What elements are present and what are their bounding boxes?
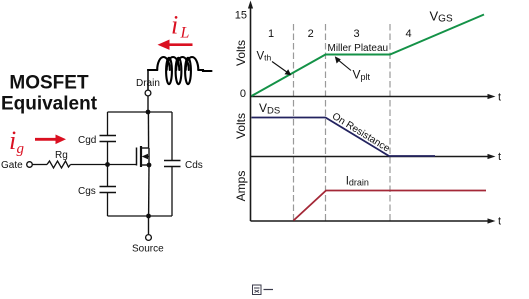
wire Gate to Rg <box>33 164 48 166</box>
svg-text:0: 0 <box>240 88 246 100</box>
svg-text:MOSFET: MOSFET <box>9 73 89 94</box>
svg-text:VGS: VGS <box>430 9 453 25</box>
svg-text:2: 2 <box>308 28 314 40</box>
waveform Idrain (dark red) <box>294 191 487 221</box>
wire bottom rail to Source terminal <box>148 216 150 234</box>
svg-text:Vth: Vth <box>257 51 272 63</box>
wire Cgs to bottom rail <box>107 193 109 217</box>
svg-text:L: L <box>180 25 190 42</box>
node Source terminal <box>132 235 164 255</box>
svg-text:Gate: Gate <box>1 160 23 171</box>
wire MOSFET drain up to top rail <box>147 112 149 148</box>
capacitor Cds <box>164 160 203 171</box>
wire left rail top (gate node to Cgd) <box>107 142 109 165</box>
wire Cds bottom <box>171 167 173 217</box>
svg-text:1: 1 <box>268 28 274 40</box>
node MOSFET source junction <box>147 163 152 168</box>
wire top rail (drain net) <box>108 111 173 113</box>
svg-text:Rg: Rg <box>55 150 68 161</box>
capacitor Cgd <box>78 135 116 146</box>
arrow ig <box>35 135 66 145</box>
axis: VGS chart y-axis with arrow <box>248 1 253 97</box>
wire Drain terminal up to inductor <box>147 69 149 90</box>
node top rail junction <box>146 110 151 115</box>
svg-text:Cgs: Cgs <box>78 186 96 197</box>
svg-text:t: t <box>498 151 501 163</box>
svg-text:g: g <box>17 141 25 157</box>
svg-text:Vplt: Vplt <box>353 68 371 82</box>
axis: VDS chart t-axis with arrow <box>251 151 502 163</box>
svg-text:t: t <box>498 91 501 103</box>
dashed region separator line 3 <box>389 24 391 221</box>
capacitor Cgs <box>78 186 116 197</box>
axis: Idrain chart t-axis with arrow <box>251 216 502 228</box>
dashed region separator line 2 <box>325 24 327 221</box>
caption 图一 (figure one glyph) <box>253 285 274 295</box>
axis: Idrain chart left spine <box>250 157 252 222</box>
arrow iL <box>158 40 193 50</box>
wire top rail junction up to Drain terminal <box>147 96 149 112</box>
node bottom rail junction <box>146 214 151 219</box>
svg-text:i: i <box>171 11 178 40</box>
axis: VDS chart left spine <box>250 97 252 157</box>
svg-text:4: 4 <box>405 28 411 40</box>
svg-text:Volts: Volts <box>234 113 248 139</box>
label Vth with arrow <box>257 51 292 76</box>
svg-text:15: 15 <box>235 10 247 22</box>
axis: VGS chart t-axis with arrow <box>251 91 502 103</box>
title: MOSFET Equivalent <box>1 73 98 115</box>
wire MOSFET source down to bottom rail <box>148 165 150 216</box>
wire gate node to Cgs <box>107 165 109 187</box>
svg-text:VDS: VDS <box>259 101 280 116</box>
svg-text:Miller Plateau: Miller Plateau <box>328 43 389 54</box>
svg-text:Cds: Cds <box>185 160 203 171</box>
wire Cgd to top rail <box>107 112 109 136</box>
transistor Q1 N-MOSFET <box>137 146 150 167</box>
svg-text:Amps: Amps <box>234 171 248 202</box>
node Drain terminal <box>136 78 160 96</box>
node gate junction <box>105 162 110 167</box>
waveform VGS (green) <box>252 15 485 97</box>
dashed region separator line 1 <box>293 24 295 221</box>
inductor L1 <box>148 57 212 84</box>
svg-text:Source: Source <box>132 244 164 255</box>
label Vplt with arrow <box>335 56 371 82</box>
svg-text:t: t <box>498 216 501 228</box>
current label ig <box>9 126 25 157</box>
waveform VDS (navy) <box>252 118 436 157</box>
wire Cds top <box>171 112 173 161</box>
current label iL <box>171 11 190 42</box>
svg-text:Cgd: Cgd <box>78 135 96 146</box>
svg-text:Equivalent: Equivalent <box>1 94 98 115</box>
node Gate terminal <box>1 160 32 171</box>
svg-text:i: i <box>9 126 16 155</box>
svg-text:On Resistance: On Resistance <box>330 111 392 155</box>
svg-text:Volts: Volts <box>234 40 248 66</box>
resistor Rg <box>47 150 71 168</box>
svg-text:Idrain: Idrain <box>346 175 369 187</box>
svg-text:3: 3 <box>353 28 359 40</box>
wire Rg to MOSFET gate <box>71 164 137 166</box>
wire bottom rail (source net) <box>108 215 173 217</box>
